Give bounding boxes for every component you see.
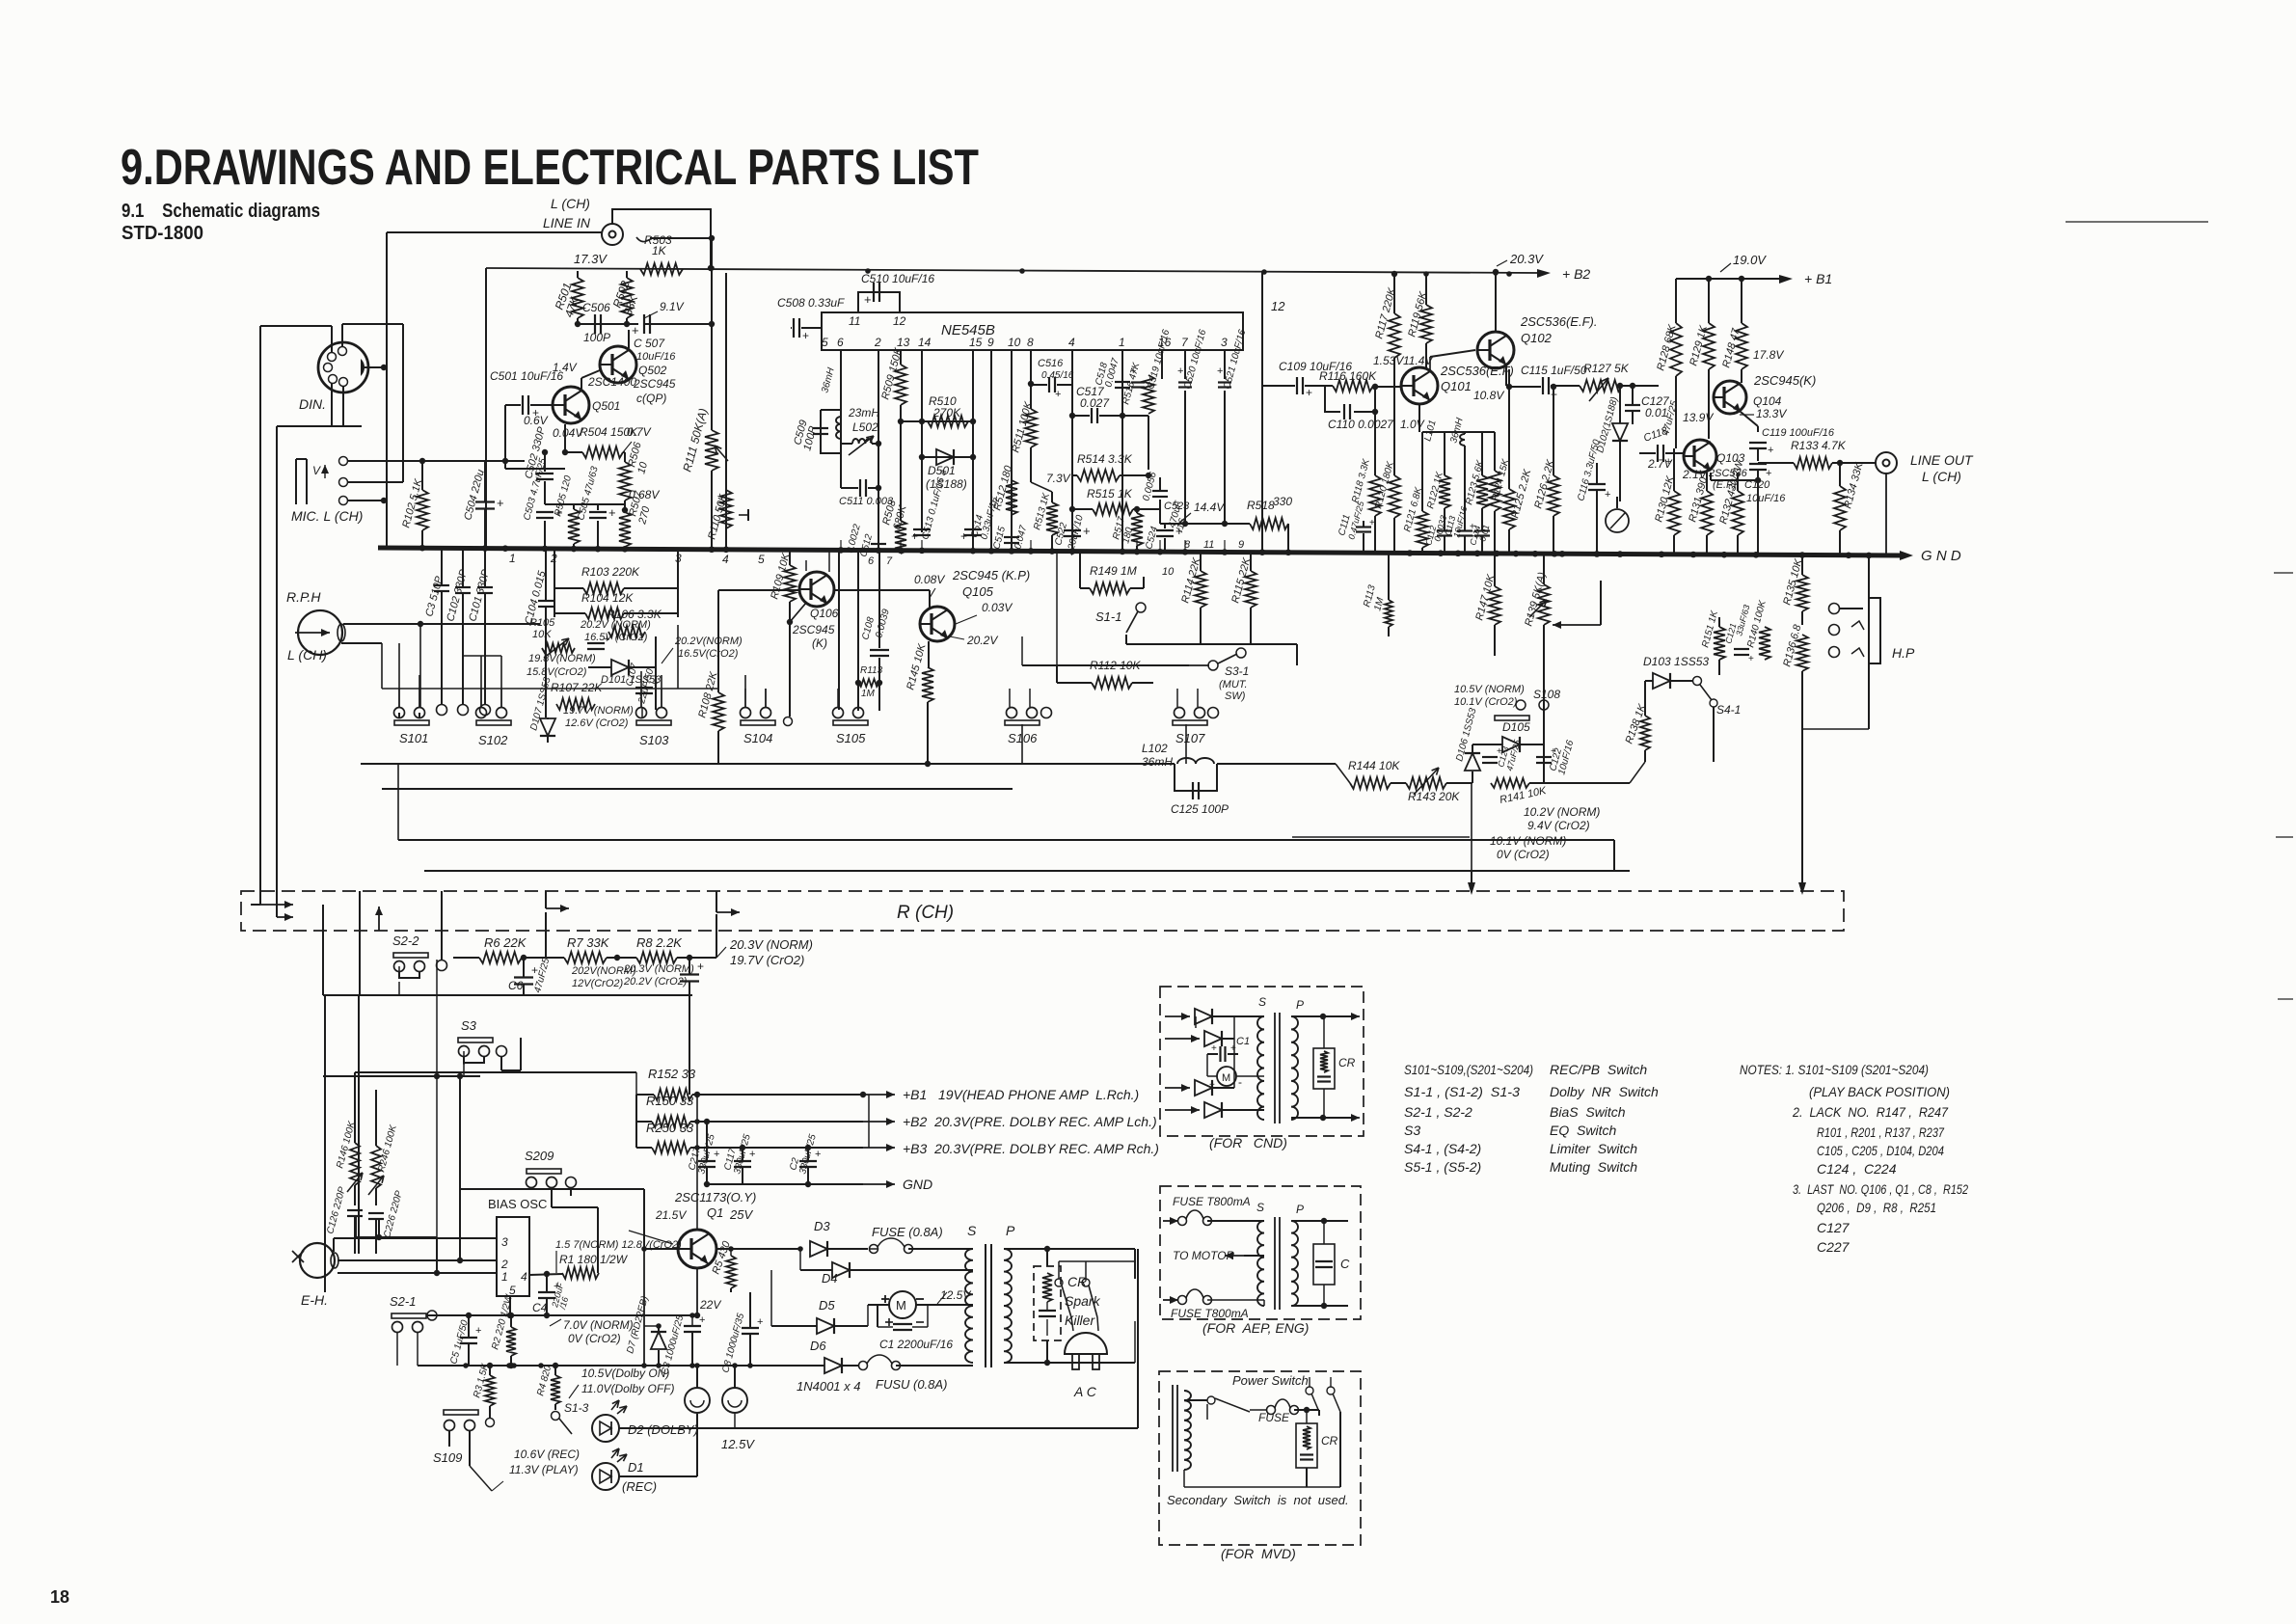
svg-text:7: 7 — [886, 555, 893, 567]
svg-text:14: 14 — [918, 336, 932, 349]
switch S104 — [741, 720, 775, 725]
svg-text:A C: A C — [1073, 1384, 1097, 1399]
svg-text:+B1 19V(HEAD PHONE AMP L.Rc: +B1 19V(HEAD PHONE AMP L.Rch.) — [903, 1087, 1139, 1102]
svg-text:R127 5K: R127 5K — [1583, 362, 1630, 375]
power switch contacts — [1306, 1387, 1313, 1394]
dashed box FOR CND — [1160, 987, 1364, 1136]
svg-text:17.3V: 17.3V — [574, 252, 608, 266]
motor M option — [1217, 1067, 1236, 1086]
svg-text:3: 3 — [1221, 336, 1228, 349]
svg-text:11.3V (PLAY): 11.3V (PLAY) — [509, 1463, 579, 1476]
capacitor C520 — [1178, 381, 1192, 383]
capacitor C123 47uF/25 — [1482, 756, 1498, 758]
svg-text:C: C — [1340, 1257, 1350, 1271]
svg-text:4: 4 — [722, 553, 729, 566]
svg-text:+B2 20.3V(PRE. DOLBY REC. AMP: +B2 20.3V(PRE. DOLBY REC. AMP Lch.) — [903, 1114, 1157, 1129]
svg-text:D3: D3 — [814, 1219, 830, 1233]
svg-text:+: + — [864, 292, 872, 307]
svg-text:REC/PB Switch: REC/PB Switch — [1550, 1062, 1647, 1077]
capacitor C106 — [587, 642, 605, 644]
svg-text:L (CH): L (CH) — [551, 196, 590, 211]
capacitor C4 — [538, 1291, 555, 1293]
svg-text:S1-3: S1-3 — [564, 1401, 589, 1415]
svg-text:C125 100P: C125 100P — [1171, 802, 1229, 816]
svg-text:6: 6 — [837, 336, 844, 349]
svg-text:10.5V (NORM): 10.5V (NORM) — [1454, 684, 1525, 695]
svg-text:+: + — [1209, 1080, 1215, 1091]
svg-text:20.2V: 20.2V — [966, 634, 998, 647]
svg-text:19.0V: 19.0V — [1733, 253, 1767, 267]
capacitor C217 — [698, 1160, 716, 1162]
jack H.P — [1829, 604, 1840, 614]
svg-text:12: 12 — [1271, 299, 1285, 313]
wire verticals below title area — [324, 995, 326, 1292]
jack MIC L(CH) — [295, 459, 297, 504]
meter symbol — [1606, 509, 1629, 532]
wire C501 left — [504, 405, 506, 469]
resistor R110 50K — [720, 490, 732, 528]
svg-text:Muting Switch: Muting Switch — [1550, 1159, 1637, 1175]
capacitor C506 — [594, 314, 596, 334]
lamp PL1 — [685, 1388, 710, 1413]
rail +B1 out — [863, 1094, 895, 1096]
svg-text:S3-1: S3-1 — [1225, 664, 1249, 678]
svg-text:BiaS Switch: BiaS Switch — [1550, 1104, 1626, 1120]
svg-text:+: + — [1306, 386, 1312, 399]
svg-text:9.1V: 9.1V — [660, 300, 685, 313]
svg-text:23mH: 23mH — [848, 406, 879, 420]
capacitor C507 — [643, 314, 645, 334]
svg-text:10.8V: 10.8V — [1473, 389, 1504, 402]
switch S1-3 — [552, 1412, 560, 1421]
svg-text:6: 6 — [868, 555, 875, 567]
wire primary to plug — [1004, 1248, 1135, 1250]
svg-text:5: 5 — [509, 1284, 516, 1297]
wire RPH to switches — [343, 623, 540, 625]
svg-text:D5: D5 — [819, 1298, 835, 1313]
svg-text:FUSE T800mA: FUSE T800mA — [1173, 1195, 1251, 1208]
resistor R102 — [417, 490, 428, 530]
arrow into band 1 — [260, 904, 293, 906]
svg-text:S4-1: S4-1 — [1716, 703, 1741, 717]
svg-text:S: S — [1256, 1201, 1264, 1214]
svg-text:Power Switch: Power Switch — [1232, 1373, 1309, 1388]
svg-text:NOTES: 1. S101~S109 (S201~S204: NOTES: 1. S101~S109 (S201~S204) — [1740, 1062, 1929, 1077]
svg-text:BIAS OSC: BIAS OSC — [488, 1197, 547, 1211]
svg-text:(K): (K) — [812, 636, 827, 650]
svg-text:R144 10K: R144 10K — [1348, 759, 1400, 772]
capacitor C504 — [475, 501, 495, 502]
dashed box FOR MVD — [1159, 1371, 1361, 1545]
diode D501 — [936, 449, 954, 465]
wire pin6 branch — [840, 350, 842, 439]
svg-text:+: + — [757, 1316, 763, 1328]
fuse FUSU 0.8A — [859, 1362, 868, 1370]
svg-text:10.1V (CrO2): 10.1V (CrO2) — [1454, 696, 1518, 708]
svg-text:1.5 7(NORM) 12.8V(CrO2): 1.5 7(NORM) 12.8V(CrO2) — [555, 1239, 682, 1251]
svg-text:10K: 10K — [532, 629, 552, 640]
switch S103 — [636, 720, 671, 725]
svg-text:R104 12K: R104 12K — [581, 591, 634, 605]
svg-text:R8 2.2K: R8 2.2K — [636, 935, 683, 950]
svg-text:18: 18 — [50, 1587, 69, 1607]
svg-text:C1: C1 — [1236, 1036, 1250, 1047]
main power bus line — [418, 1365, 824, 1367]
svg-text:+: + — [911, 529, 918, 543]
svg-text:1: 1 — [509, 552, 516, 565]
svg-text:Q501: Q501 — [592, 399, 620, 413]
svg-text:0.03V: 0.03V — [982, 601, 1013, 614]
junction dots power bus — [463, 1363, 469, 1368]
svg-text:20.3V: 20.3V — [1509, 252, 1544, 266]
svg-text:4: 4 — [521, 1270, 527, 1284]
svg-text:GND: GND — [903, 1177, 932, 1192]
wire S105 verticals — [838, 551, 840, 710]
svg-text:Killer: Killer — [1065, 1313, 1095, 1328]
wire 21.5V line — [460, 1188, 644, 1190]
svg-text:+: + — [699, 1314, 705, 1326]
wire under-IC bus verticals — [840, 540, 842, 552]
svg-text:S107: S107 — [1175, 731, 1205, 745]
wire pin4 pin1 — [1071, 350, 1073, 553]
rail +B3 out — [863, 1147, 895, 1149]
switch S107 — [1173, 720, 1207, 725]
svg-text:2. LACK NO. R147 , R247: 2. LACK NO. R147 , R247 — [1792, 1104, 1949, 1120]
wire q1 supply vertical — [696, 1095, 698, 1230]
svg-text:20.3V (NORM): 20.3V (NORM) — [623, 963, 694, 975]
svg-text:+: + — [815, 1149, 821, 1160]
svg-text:1M: 1M — [861, 689, 876, 699]
rail +B1 — [1676, 278, 1783, 280]
capacitor C122 10uF/16 — [1536, 756, 1552, 758]
svg-text:C127: C127 — [1817, 1220, 1850, 1235]
svg-text:9: 9 — [1238, 539, 1244, 551]
svg-text:+: + — [1748, 654, 1754, 664]
svg-text:+: + — [1211, 1043, 1217, 1054]
capacitor C513 — [913, 528, 931, 530]
wire left vertical main — [386, 232, 388, 548]
wire mid line A — [398, 839, 1614, 841]
svg-text:10: 10 — [1008, 336, 1021, 349]
svg-text:330: 330 — [1273, 495, 1292, 508]
wire B rail vertical — [868, 1095, 870, 1148]
wire limiter to band — [1801, 687, 1803, 887]
svg-text:0.45/16: 0.45/16 — [1041, 370, 1074, 381]
wire bias caps join — [355, 1217, 357, 1237]
svg-text:+: + — [802, 329, 809, 342]
svg-text:R105: R105 — [529, 617, 555, 629]
svg-text:Q1: Q1 — [707, 1205, 723, 1220]
svg-text:S1-1 , (S1-2) S1-3: S1-1 , (S1-2) S1-3 — [1404, 1084, 1520, 1099]
svg-text:10uF/16: 10uF/16 — [1746, 493, 1786, 504]
svg-text:5: 5 — [822, 336, 828, 349]
svg-text:MIC. L (CH): MIC. L (CH) — [291, 508, 363, 524]
svg-text:9: 9 — [987, 336, 994, 349]
resistor R513 — [1046, 502, 1058, 535]
svg-text:D4: D4 — [822, 1271, 838, 1286]
svg-text:19.7V (NORM): 19.7V (NORM) — [563, 705, 634, 717]
svg-text:D2 (DOLBY): D2 (DOLBY) — [628, 1422, 698, 1437]
svg-text:C124 , C224: C124 , C224 — [1817, 1161, 1897, 1177]
dashed channel box R(CH) — [241, 891, 1844, 931]
capacitor C110 — [1325, 387, 1340, 412]
diode bridge D d — [1165, 1109, 1200, 1111]
svg-text:14.4V: 14.4V — [1194, 501, 1225, 514]
svg-text:+: + — [1605, 489, 1610, 501]
svg-text:(FOR CND): (FOR CND) — [1209, 1135, 1287, 1150]
capacitor C120 — [1749, 463, 1767, 465]
svg-text:+ B2: + B2 — [1562, 266, 1590, 282]
phone head R.P.H — [298, 610, 342, 655]
capacitor C1 2200uF/16 — [893, 1323, 912, 1325]
arrow into band 4 — [716, 911, 740, 913]
transistor Q502 — [600, 346, 636, 383]
svg-text:10uF/16: 10uF/16 — [636, 351, 676, 363]
LED D1 REC — [592, 1463, 619, 1490]
svg-text:D105: D105 — [1502, 720, 1530, 734]
transistor Q103 — [1684, 440, 1716, 473]
svg-text:P: P — [1296, 998, 1304, 1012]
emitter cluster wires — [1418, 404, 1420, 432]
svg-text:M: M — [896, 1298, 906, 1313]
arrow up into band — [378, 907, 380, 931]
svg-text:SW): SW) — [1225, 690, 1246, 702]
wire Q101 collector — [1429, 357, 1431, 371]
wire pin13-15 jogs — [901, 420, 973, 422]
svg-text:S4-1 , (S4-2): S4-1 , (S4-2) — [1404, 1141, 1481, 1156]
wire stage row — [578, 323, 638, 325]
switch S101 — [394, 720, 429, 725]
svg-text:D6: D6 — [810, 1339, 826, 1353]
svg-text:20.2V(NORM): 20.2V(NORM) — [674, 636, 743, 647]
svg-text:S3: S3 — [1404, 1123, 1420, 1138]
svg-text:+: + — [714, 1149, 719, 1160]
svg-text:L (CH): L (CH) — [287, 647, 327, 663]
svg-text:C115 1uF/50: C115 1uF/50 — [1521, 364, 1587, 377]
svg-text:22V: 22V — [699, 1298, 721, 1312]
wire verticals through band — [322, 905, 324, 995]
svg-text:13.3V: 13.3V — [1756, 407, 1787, 420]
wire pin16 pin7 pin3 — [1161, 350, 1163, 379]
svg-text:R150 33: R150 33 — [646, 1094, 694, 1108]
svg-text:+: + — [475, 1325, 481, 1337]
svg-text:12: 12 — [893, 314, 906, 328]
svg-text:C105 , C205 , D104, D204: C105 , C205 , D104, D204 — [1817, 1143, 1944, 1158]
svg-text:Q105: Q105 — [962, 584, 994, 599]
svg-text:S104: S104 — [743, 731, 772, 745]
svg-text:CR: CR — [1338, 1056, 1356, 1069]
transistor Q106 — [799, 572, 834, 607]
svg-text:C501 10uF/16: C501 10uF/16 — [490, 369, 563, 383]
resistor R507 — [619, 512, 631, 547]
svg-text:R113: R113 — [860, 665, 883, 676]
svg-text:S105: S105 — [836, 731, 866, 745]
svg-text:S3: S3 — [461, 1018, 477, 1033]
svg-text:C227: C227 — [1817, 1239, 1850, 1255]
svg-text:1: 1 — [501, 1270, 508, 1284]
svg-text:2: 2 — [874, 336, 881, 349]
svg-text:R103 220K: R103 220K — [581, 565, 640, 579]
svg-text:R107 22K: R107 22K — [551, 681, 603, 694]
svg-text:FUSE T800mA: FUSE T800mA — [1171, 1307, 1249, 1320]
svg-text:9.DRAWINGS AND ELECTRICAL PART: 9.DRAWINGS AND ELECTRICAL PARTS LIST — [121, 140, 979, 196]
svg-text:+: + — [1217, 365, 1223, 377]
svg-text:0V (CrO2): 0V (CrO2) — [1497, 848, 1550, 861]
svg-text:2SC1173(O.Y): 2SC1173(O.Y) — [674, 1190, 756, 1204]
wire vertical x753 — [725, 273, 727, 550]
svg-text:+: + — [1177, 365, 1183, 377]
svg-text:S102: S102 — [478, 733, 508, 747]
transistor Q501 — [553, 387, 589, 423]
svg-text:9.1 Schematic diagrams: 9.1 Schematic diagrams — [122, 201, 320, 222]
svg-text:25V: 25V — [729, 1207, 753, 1222]
wires right bias — [1706, 276, 1712, 282]
wire vertical x1309 node 12 — [1261, 271, 1263, 553]
svg-text:+: + — [497, 496, 504, 510]
capacitor C502 — [536, 473, 554, 474]
svg-text:L502: L502 — [852, 420, 878, 434]
svg-text:2SC945(K): 2SC945(K) — [1753, 373, 1816, 388]
capacitor C2 — [799, 1160, 817, 1162]
edge artifact marks — [2066, 221, 2208, 223]
svg-text:9.4V (CrO2): 9.4V (CrO2) — [1527, 819, 1590, 832]
wire bias link row — [427, 1314, 697, 1316]
svg-text:LINE OUT: LINE OUT — [1910, 452, 1974, 468]
svg-text:4: 4 — [1068, 336, 1075, 349]
svg-text:R133 4.7K: R133 4.7K — [1791, 439, 1847, 452]
svg-text:2SC945 (K.P): 2SC945 (K.P) — [952, 568, 1030, 582]
svg-text:S101: S101 — [399, 731, 428, 745]
svg-text:+: + — [1083, 524, 1091, 538]
svg-text:-: - — [1238, 1075, 1242, 1089]
svg-text:R149 1M: R149 1M — [1090, 564, 1137, 578]
svg-text:V: V — [312, 464, 321, 477]
svg-text:Q106: Q106 — [810, 607, 839, 620]
svg-text:C506: C506 — [582, 301, 610, 314]
svg-text:C4: C4 — [532, 1301, 548, 1314]
svg-text:100P: 100P — [583, 331, 610, 344]
svg-text:+: + — [749, 1149, 755, 1160]
svg-text:11.4V: 11.4V — [1403, 354, 1433, 367]
svg-text:C6: C6 — [508, 979, 524, 992]
svg-text:+: + — [1766, 468, 1771, 479]
rail +B2 — [486, 268, 1541, 273]
transistor Q1 — [678, 1230, 716, 1268]
junction dots power rails — [694, 1119, 700, 1124]
wire LED rows — [619, 1427, 1138, 1429]
rail +B2 out — [863, 1121, 895, 1123]
svg-text:Q102: Q102 — [1521, 331, 1553, 345]
svg-text:R6 22K: R6 22K — [484, 935, 527, 950]
svg-text:D1: D1 — [628, 1460, 644, 1475]
svg-text:S2-2: S2-2 — [392, 934, 419, 948]
junction dots on ground bus — [419, 545, 426, 552]
capacitor C521 — [1218, 381, 1231, 383]
svg-text:CR: CR — [1321, 1434, 1338, 1448]
svg-text:+: + — [604, 634, 609, 645]
wire left pair to R channel — [259, 326, 261, 905]
wire HP vertical — [1868, 555, 1870, 729]
svg-text:11: 11 — [849, 314, 860, 328]
svg-text:STD-1800: STD-1800 — [122, 223, 203, 244]
transformer option3 coil — [1172, 1385, 1174, 1472]
svg-text:R106 3.3K: R106 3.3K — [607, 608, 662, 621]
svg-text:+: + — [960, 529, 967, 543]
svg-text:1.0V: 1.0V — [1400, 418, 1425, 431]
svg-text:c(QP): c(QP) — [636, 392, 666, 405]
transistor Q101 — [1401, 367, 1438, 404]
wire jack feed — [387, 231, 602, 233]
capacitor C514 — [964, 528, 982, 530]
potentiometer R143 20K — [1406, 777, 1446, 789]
svg-text:R518: R518 — [1247, 499, 1275, 512]
capacitor C6 — [514, 976, 533, 978]
capacitor CR spark killer box — [1034, 1266, 1061, 1340]
svg-text:+: + — [1055, 389, 1061, 400]
resistor R506 — [619, 462, 631, 501]
svg-text:DIN.: DIN. — [299, 396, 326, 412]
resistor R505 — [568, 509, 580, 544]
transformer option1 core — [1274, 1013, 1276, 1123]
svg-text:12.5V: 12.5V — [721, 1437, 755, 1451]
svg-text:19.8V(NORM): 19.8V(NORM) — [528, 653, 596, 664]
svg-text:12.6V (CrO2): 12.6V (CrO2) — [565, 717, 629, 729]
svg-text:13: 13 — [897, 336, 910, 349]
svg-text:LINE IN: LINE IN — [543, 215, 591, 230]
svg-text:2SC536(E.F).: 2SC536(E.F). — [1520, 314, 1597, 329]
svg-text:3. LAST NO. Q106 , Q1 , C8 ,: 3. LAST NO. Q106 , Q1 , C8 , R152 — [1793, 1181, 1968, 1197]
svg-text:10.1V (NORM): 10.1V (NORM) — [1490, 834, 1566, 848]
svg-text:10.2V (NORM): 10.2V (NORM) — [1524, 805, 1600, 819]
svg-text:S108: S108 — [1533, 688, 1560, 701]
wire mvd bottom — [1306, 1468, 1308, 1487]
resistor R141 10K — [1491, 778, 1529, 788]
jack LINE OUT — [1876, 452, 1897, 474]
svg-text:+B3 20.3V(PRE. DOLBY REC. AMP: +B3 20.3V(PRE. DOLBY REC. AMP Rch.) — [903, 1141, 1159, 1156]
svg-text:C510 10uF/16: C510 10uF/16 — [861, 272, 934, 285]
switch mains levers — [1055, 1279, 1063, 1286]
svg-text:R143 20K: R143 20K — [1408, 790, 1460, 803]
svg-text:(REC): (REC) — [622, 1479, 657, 1494]
switch S4-1 — [1693, 677, 1702, 686]
svg-text:15: 15 — [969, 336, 983, 349]
rail GND out — [707, 1183, 863, 1185]
svg-text:17.8V: 17.8V — [1753, 348, 1784, 362]
wire mic row — [504, 461, 506, 469]
svg-text:Q101: Q101 — [1441, 379, 1472, 393]
svg-text:S2-1: S2-1 — [390, 1294, 416, 1309]
svg-text:CR: CR — [1067, 1274, 1087, 1289]
svg-text:S: S — [967, 1223, 977, 1238]
svg-text:EQ Switch: EQ Switch — [1550, 1123, 1616, 1138]
svg-text:+: + — [608, 505, 616, 520]
wire DIN pins — [365, 366, 384, 368]
svg-text:19.7V (CrO2): 19.7V (CrO2) — [730, 953, 804, 967]
capacitor C option2 — [1291, 1220, 1348, 1222]
wire option1 out — [1291, 1015, 1358, 1017]
svg-text:5: 5 — [758, 553, 765, 566]
svg-text:(FOR AEP, ENG): (FOR AEP, ENG) — [1202, 1320, 1309, 1336]
svg-text:S1-1: S1-1 — [1095, 609, 1121, 624]
wire vertical x738 rail to bus — [711, 268, 713, 430]
svg-text:R7 33K: R7 33K — [567, 935, 610, 950]
wire base row — [505, 468, 565, 470]
wire pin2 down — [878, 350, 879, 553]
svg-text:2.7V: 2.7V — [1647, 457, 1673, 471]
svg-text:H.P: H.P — [1892, 645, 1915, 661]
lamp E.H. — [300, 1243, 335, 1278]
svg-text:+: + — [1130, 365, 1136, 377]
